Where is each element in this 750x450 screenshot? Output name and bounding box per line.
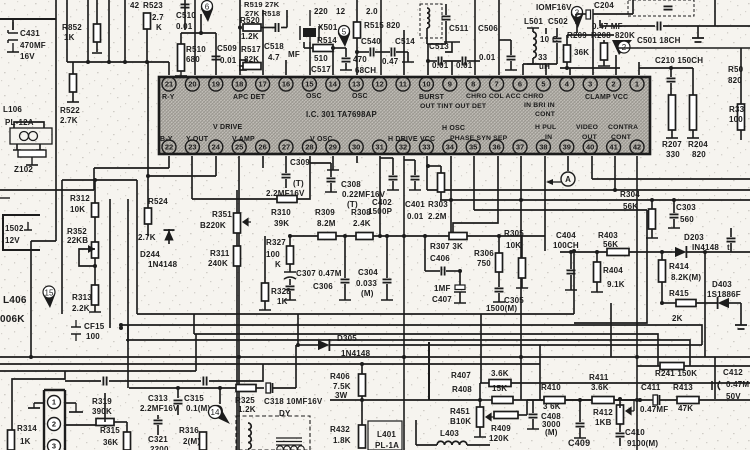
- svg-text:68CH: 68CH: [355, 66, 376, 75]
- wire: [566, 62, 568, 68]
- resistor R517 body: [240, 60, 246, 70]
- capacitor C513b: [462, 57, 465, 66]
- svg-text:MF: MF: [288, 50, 300, 59]
- wire: [637, 365, 660, 367]
- wire video row upper: [592, 178, 750, 180]
- svg-text:VIDEO: VIDEO: [576, 124, 598, 131]
- junction: [145, 60, 149, 64]
- wire: [570, 275, 572, 290]
- wire: [427, 165, 441, 167]
- wire: [114, 421, 127, 423]
- svg-text:R406: R406: [330, 372, 350, 381]
- wire step riser: [574, 210, 647, 323]
- wire: [177, 405, 179, 415]
- svg-text:0.47: 0.47: [382, 57, 399, 66]
- svg-text:14: 14: [329, 80, 338, 89]
- wire: [565, 399, 592, 401]
- junction: [288, 234, 292, 238]
- wire long vertical bus A: [55, 0, 57, 241]
- junction: [426, 164, 430, 168]
- wire pin31 down: [379, 156, 381, 236]
- svg-text:R520: R520: [240, 16, 260, 25]
- wire tick: [387, 189, 399, 191]
- svg-text:A: A: [565, 175, 571, 184]
- wire pin26 down: [262, 156, 264, 168]
- svg-text:C517: C517: [311, 65, 331, 74]
- IC pin 42: [630, 140, 644, 154]
- wire: [392, 181, 394, 190]
- junction: [426, 59, 430, 63]
- ground D403: [735, 319, 747, 329]
- svg-text:27: 27: [282, 143, 290, 152]
- svg-text:CONT: CONT: [535, 111, 556, 118]
- ground conn1b: [69, 403, 83, 412]
- wire pin37 long down: [520, 156, 522, 400]
- svg-text:2.7K: 2.7K: [60, 116, 78, 125]
- svg-text:R319: R319: [92, 397, 112, 406]
- wire: [510, 61, 512, 70]
- svg-text:R408: R408: [452, 385, 472, 394]
- svg-text:OUT: OUT: [582, 134, 598, 141]
- capacitor C401 plates: [411, 176, 420, 179]
- wire: [479, 383, 481, 400]
- svg-text:28: 28: [305, 143, 313, 152]
- wire: [147, 176, 149, 208]
- svg-text:R207: R207: [662, 140, 682, 149]
- svg-text:X501: X501: [318, 23, 338, 32]
- wire: [264, 301, 266, 310]
- svg-text:R307 3K: R307 3K: [430, 242, 463, 251]
- svg-text:R407: R407: [451, 371, 471, 380]
- svg-text:DY: DY: [279, 409, 291, 418]
- svg-text:3.6K: 3.6K: [591, 383, 609, 392]
- svg-text:26: 26: [258, 143, 266, 152]
- wire C412 column: [714, 357, 716, 399]
- wire: [177, 388, 179, 398]
- junction: [385, 234, 389, 238]
- junction: [572, 249, 576, 253]
- wire: [596, 252, 598, 262]
- wire to C431: [12, 19, 14, 30]
- junction: [618, 397, 622, 401]
- wire pin6 lead: [522, 64, 524, 75]
- svg-text:37: 37: [516, 143, 524, 152]
- svg-text:1.2K: 1.2K: [241, 32, 259, 41]
- svg-text:1K: 1K: [20, 437, 31, 446]
- wire tick: [666, 137, 678, 139]
- svg-text:C404: C404: [556, 231, 576, 240]
- wire: [285, 168, 287, 173]
- wire: [684, 365, 750, 367]
- svg-text:(M): (M): [545, 428, 558, 437]
- svg-text:0.47M: 0.47M: [726, 380, 749, 389]
- wire: [361, 400, 363, 425]
- IC pin 36: [490, 140, 504, 154]
- wire: [467, 60, 480, 62]
- wire tick: [687, 137, 699, 139]
- svg-text:R314: R314: [17, 424, 37, 433]
- wire pin27 down: [285, 156, 287, 168]
- wire: [209, 364, 263, 381]
- wire: [281, 27, 287, 29]
- junction: [660, 301, 664, 305]
- svg-text:3: 3: [588, 80, 592, 89]
- svg-text:22: 22: [165, 143, 173, 152]
- svg-text:47K: 47K: [678, 404, 693, 413]
- capacitor C313 lower plates: [154, 420, 163, 423]
- wire: [445, 4, 447, 15]
- svg-text:0.033: 0.033: [356, 279, 377, 288]
- svg-text:2.2K: 2.2K: [72, 304, 90, 313]
- resistor R411: [592, 397, 614, 404]
- svg-text:100CH: 100CH: [553, 241, 579, 250]
- svg-text:D403: D403: [712, 280, 732, 289]
- svg-text:C514: C514: [395, 37, 415, 46]
- junction: [638, 398, 642, 402]
- capacitor C404 plates: [567, 270, 576, 273]
- svg-text:C306: C306: [313, 282, 333, 291]
- svg-text:CONT: CONT: [611, 134, 632, 141]
- wire: [513, 399, 640, 401]
- svg-text:0.01: 0.01: [220, 56, 237, 65]
- wire: [94, 258, 96, 285]
- junction: [635, 398, 639, 402]
- wire: [0, 197, 10, 199]
- wire: [532, 419, 534, 429]
- svg-text:H DRIVE VCC: H DRIVE VCC: [388, 136, 435, 143]
- IC pin 30: [349, 140, 363, 154]
- wire tick: [591, 291, 603, 293]
- junction: [146, 174, 150, 178]
- wire: [157, 415, 159, 419]
- svg-text:12: 12: [336, 7, 346, 16]
- svg-text:C318 10MF16V: C318 10MF16V: [264, 397, 323, 406]
- yoke core lines: [276, 438, 302, 445]
- wire section box right: [573, 251, 575, 314]
- wire: [614, 399, 650, 401]
- wire gnd bracket: [445, 42, 452, 52]
- wire: [704, 252, 706, 357]
- wire: [518, 414, 527, 416]
- IC pin 3: [583, 77, 597, 91]
- svg-text:20: 20: [188, 80, 196, 89]
- svg-text:19: 19: [212, 80, 220, 89]
- wire pin33 down: [426, 156, 428, 173]
- svg-text:38: 38: [539, 143, 547, 152]
- svg-text:C411: C411: [641, 383, 661, 392]
- wire jog to R314: [12, 371, 65, 430]
- wire R852 top: [96, 0, 98, 24]
- svg-text:10: 10: [422, 80, 430, 89]
- capacitor C305 plates: [495, 288, 504, 291]
- wire pin2 lead: [615, 55, 617, 75]
- IC pin 33: [419, 140, 433, 154]
- wire: [65, 380, 101, 382]
- wire tick: [340, 69, 352, 71]
- wire tick: [505, 69, 517, 71]
- svg-text:1S1886F: 1S1886F: [707, 290, 741, 299]
- wire pin42 long down: [636, 156, 638, 450]
- svg-text:100: 100: [266, 250, 280, 259]
- svg-text:16: 16: [282, 80, 290, 89]
- svg-text:R413: R413: [673, 383, 693, 392]
- diode D244: [164, 230, 175, 240]
- svg-text:CHRO COL ACC CHRO: CHRO COL ACC CHRO: [466, 93, 544, 100]
- svg-text:1500P: 1500P: [368, 207, 393, 216]
- ground conn1: [28, 403, 40, 408]
- capacitor C510 plates: [181, 4, 190, 7]
- IC pin 1: [630, 77, 644, 91]
- svg-text:50V: 50V: [726, 392, 741, 401]
- svg-text:31: 31: [375, 143, 383, 152]
- svg-text:R351: R351: [212, 210, 232, 219]
- svg-text:R523: R523: [143, 1, 163, 10]
- wire: [662, 302, 676, 304]
- wire: [445, 21, 447, 44]
- resistor R207: [669, 95, 676, 130]
- capacitor C518: [275, 23, 278, 32]
- capacitor C408 plates: [529, 414, 538, 417]
- wire: [532, 400, 534, 413]
- connector pin 1: [48, 396, 61, 409]
- wire tick: [381, 299, 393, 301]
- resistor R404: [594, 262, 601, 282]
- junction: [93, 178, 97, 182]
- capacitor C309 plates: [282, 174, 291, 177]
- wire: [570, 252, 572, 269]
- wire: [532, 28, 534, 32]
- IC pin 26: [256, 140, 270, 154]
- svg-text:R404: R404: [603, 266, 623, 275]
- wire left riser: [127, 325, 129, 388]
- svg-text:2K: 2K: [672, 314, 683, 323]
- svg-text:9100(M): 9100(M): [627, 439, 658, 448]
- svg-text:1MF: 1MF: [434, 284, 451, 293]
- svg-text:D203: D203: [684, 233, 704, 242]
- resistor R241: [660, 363, 684, 370]
- wire: [427, 43, 446, 45]
- wire pin39 down: [567, 156, 569, 170]
- wire: [39, 144, 41, 150]
- svg-text:R325: R325: [235, 396, 255, 405]
- svg-text:1: 1: [52, 398, 56, 407]
- junction: [449, 198, 453, 202]
- resistor R315: [124, 432, 131, 450]
- wire: [239, 65, 243, 67]
- resistor R303: [438, 173, 445, 192]
- junction: [107, 60, 111, 64]
- capacitor C410 plates: [616, 433, 625, 436]
- svg-text:OSC: OSC: [306, 93, 322, 100]
- svg-text:2.2MF16V: 2.2MF16V: [140, 404, 179, 413]
- wire: [361, 364, 363, 374]
- svg-text:IOMF16V: IOMF16V: [536, 3, 572, 12]
- junction: [669, 66, 673, 70]
- resistor R406: [359, 374, 366, 396]
- resistor R316: [200, 432, 207, 450]
- wire: [603, 60, 605, 66]
- wire pin19 lead: [215, 33, 217, 75]
- svg-text:R328: R328: [271, 287, 291, 296]
- junction: [703, 250, 707, 254]
- capacitor C307: [284, 272, 296, 279]
- wire tick: [327, 169, 339, 171]
- wire: [498, 293, 500, 302]
- wire tick: [325, 191, 337, 193]
- resistor R313: [92, 285, 99, 305]
- wire bus 6: [0, 363, 540, 365]
- wire: [670, 83, 672, 95]
- wire: [428, 342, 430, 400]
- junction: [578, 398, 582, 402]
- wire: [692, 68, 694, 95]
- svg-text:12: 12: [375, 80, 383, 89]
- connector pin 3: [48, 440, 61, 450]
- wire: [192, 198, 277, 200]
- capacitor C407: [454, 285, 466, 292]
- wire: [440, 192, 442, 200]
- wire: [345, 48, 347, 57]
- wire: [386, 236, 388, 278]
- wire R852 end tick: [92, 52, 102, 54]
- svg-text:21: 21: [165, 80, 173, 89]
- junction: [86, 60, 90, 64]
- wire: [697, 26, 699, 32]
- svg-text:BURST: BURST: [419, 94, 445, 101]
- resistor R412: [617, 405, 624, 424]
- resistor R517: [243, 63, 261, 70]
- svg-text:R311: R311: [210, 249, 230, 258]
- svg-text:470MF: 470MF: [20, 41, 46, 50]
- wire: [380, 157, 393, 159]
- svg-text:560: 560: [680, 215, 694, 224]
- resistor R208: [601, 43, 608, 60]
- ground R510: [175, 71, 187, 76]
- wire: [673, 200, 675, 213]
- wire: [94, 217, 96, 242]
- connector pin 2: [48, 418, 61, 431]
- wire: [295, 345, 297, 388]
- wire: [109, 380, 201, 382]
- resistor R209: [564, 45, 571, 62]
- svg-text:0.1(M): 0.1(M): [186, 404, 210, 413]
- wire: [424, 236, 426, 271]
- wire tick: [668, 227, 680, 229]
- svg-text:34: 34: [446, 143, 455, 152]
- svg-text:C506: C506: [478, 24, 498, 33]
- wire: [428, 60, 437, 62]
- wire: [361, 396, 363, 400]
- svg-text:R403: R403: [598, 231, 618, 240]
- wire: [596, 282, 598, 292]
- svg-text:C210 150CH: C210 150CH: [655, 56, 703, 65]
- svg-text:36K: 36K: [103, 438, 118, 447]
- svg-text:C406: C406: [430, 254, 450, 263]
- IC pin 2: [607, 77, 621, 91]
- wire pin11 lead: [403, 30, 405, 75]
- wire R522 bottom: [72, 92, 74, 102]
- wire: [416, 444, 437, 446]
- svg-text:R412: R412: [593, 408, 613, 417]
- svg-text:5: 5: [342, 27, 347, 36]
- wire: [148, 175, 216, 177]
- wire: [576, 22, 578, 33]
- junction: [660, 250, 664, 254]
- IC pin 8: [466, 77, 480, 91]
- svg-text:Z102: Z102: [14, 165, 33, 174]
- wire: [264, 236, 266, 283]
- svg-text:C513: C513: [429, 42, 449, 51]
- wire: [566, 35, 568, 45]
- wire: [104, 422, 106, 425]
- wire: [236, 233, 238, 246]
- wire: [93, 168, 95, 190]
- svg-text:C313: C313: [148, 394, 168, 403]
- wire tick: [493, 301, 505, 303]
- wire: [304, 47, 313, 49]
- resistor R403: [607, 249, 629, 256]
- junction: [238, 26, 242, 30]
- svg-text:C307 0.47M: C307 0.47M: [296, 269, 342, 278]
- svg-text:B10K: B10K: [450, 417, 471, 426]
- svg-text:1502: 1502: [5, 224, 24, 233]
- wire: [730, 228, 732, 237]
- wire R522 top: [72, 62, 74, 74]
- svg-text:820: 820: [728, 76, 742, 85]
- wire bus 7: [0, 370, 196, 372]
- IC pin 34: [443, 140, 457, 154]
- resistor R308: [356, 233, 373, 240]
- svg-text:820: 820: [692, 150, 706, 159]
- svg-text:R313: R313: [72, 293, 92, 302]
- wire pin14 lead: [332, 48, 334, 75]
- wire: [730, 243, 732, 252]
- resistor R409: [494, 412, 518, 419]
- svg-text:0.01: 0.01: [176, 22, 193, 31]
- wire: [459, 271, 461, 285]
- wire vertical: [66, 0, 68, 62]
- resistor R522: [70, 74, 77, 92]
- wire tick: [516, 287, 528, 289]
- svg-text:H PUL: H PUL: [535, 124, 556, 131]
- svg-text:16V: 16V: [20, 52, 35, 61]
- svg-text:30: 30: [352, 143, 360, 152]
- capacitor C303 plates: [670, 214, 679, 217]
- wire: [499, 39, 511, 41]
- inductor L106 box: [10, 128, 52, 144]
- wire: [396, 51, 408, 53]
- svg-text:25: 25: [235, 143, 243, 152]
- svg-text:R241 150K: R241 150K: [655, 369, 697, 378]
- wire tick: [409, 189, 421, 191]
- wire mid-left vertical: [109, 199, 111, 328]
- svg-text:8.2M: 8.2M: [317, 219, 336, 228]
- capacitor C304a plates: [341, 279, 350, 282]
- svg-text:9.1K: 9.1K: [607, 280, 625, 289]
- wire tick: [474, 436, 486, 438]
- wire: [330, 399, 480, 401]
- capacitor C509 plates: [212, 56, 221, 59]
- wire: [521, 236, 523, 258]
- wire: [661, 282, 663, 303]
- wire pin10 lead: [427, 44, 429, 75]
- wire: [289, 279, 291, 285]
- wire pin21 lead: [168, 62, 170, 75]
- wire pin16 lead: [285, 60, 287, 75]
- wire vertical: [87, 0, 89, 62]
- wire: [333, 47, 346, 49]
- wire: [672, 251, 676, 253]
